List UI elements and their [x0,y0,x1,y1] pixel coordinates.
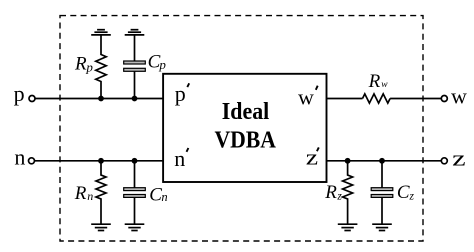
wire p to block [35,98,163,100]
capacitor Cp [124,35,167,99]
node: junction of Cp and p wire [132,96,138,102]
svg-text:VDBA: VDBA [214,126,276,153]
resistor Rn [74,161,106,224]
svg-text:w: w [451,84,467,109]
svg-text:n: n [174,146,185,171]
svg-text:z: z [452,145,466,170]
wire Rw to terminal w [390,98,441,100]
terminal n [14,145,34,170]
svg-text:R: R [368,71,381,92]
resistor Rw [363,71,391,103]
svg-text:z: z [409,191,415,203]
resistor Rz [324,161,352,224]
svg-text:R: R [74,183,87,204]
svg-text:p: p [14,81,25,106]
svg-text:Ideal: Ideal [222,98,270,125]
svg-text:z: z [336,191,342,203]
svg-text:p: p [158,57,166,72]
node: junction of Cn and n wire [132,158,138,164]
svg-text:n: n [14,145,25,170]
terminal p [14,81,35,106]
pin p' [175,81,189,106]
capacitor Cz [371,161,414,224]
svg-text:p: p [85,59,93,74]
svg-text:w: w [298,84,314,109]
node: junction of Rn and n wire [98,158,104,164]
ground (bottom, below Rn) [91,224,111,230]
svg-text:R: R [324,182,337,203]
svg-text:C: C [397,182,410,203]
ideal VDBA block [163,74,326,182]
ground (top, above Rp) [91,30,111,35]
capacitor Cn [124,161,168,224]
node: junction of Rz and z wire [345,158,351,164]
svg-text:n: n [87,189,93,203]
dashed boundary box [60,16,423,241]
svg-text:C: C [149,184,162,205]
resistor Rp [74,35,106,99]
terminal w [441,84,467,109]
node: junction of Cz and z wire [379,158,385,164]
svg-text:p: p [175,81,186,106]
wire z' to terminal z [327,160,442,162]
node: junction of Rp and p wire [98,96,104,102]
pin n' [174,146,188,171]
svg-text:z: z [306,145,319,170]
pin z' [306,145,319,170]
pin w' [298,84,318,109]
wire n to block [35,160,164,162]
svg-text:n: n [161,190,167,204]
svg-text:R: R [74,54,87,75]
ground (bottom, below Cn) [125,224,145,230]
svg-text:w: w [381,80,388,90]
ground (bottom, below Cz) [372,224,392,230]
ground (top, above Cp) [125,30,145,35]
wire w' to Rw [327,98,363,100]
terminal z [441,145,466,170]
ground (bottom, below Rz) [338,224,358,230]
